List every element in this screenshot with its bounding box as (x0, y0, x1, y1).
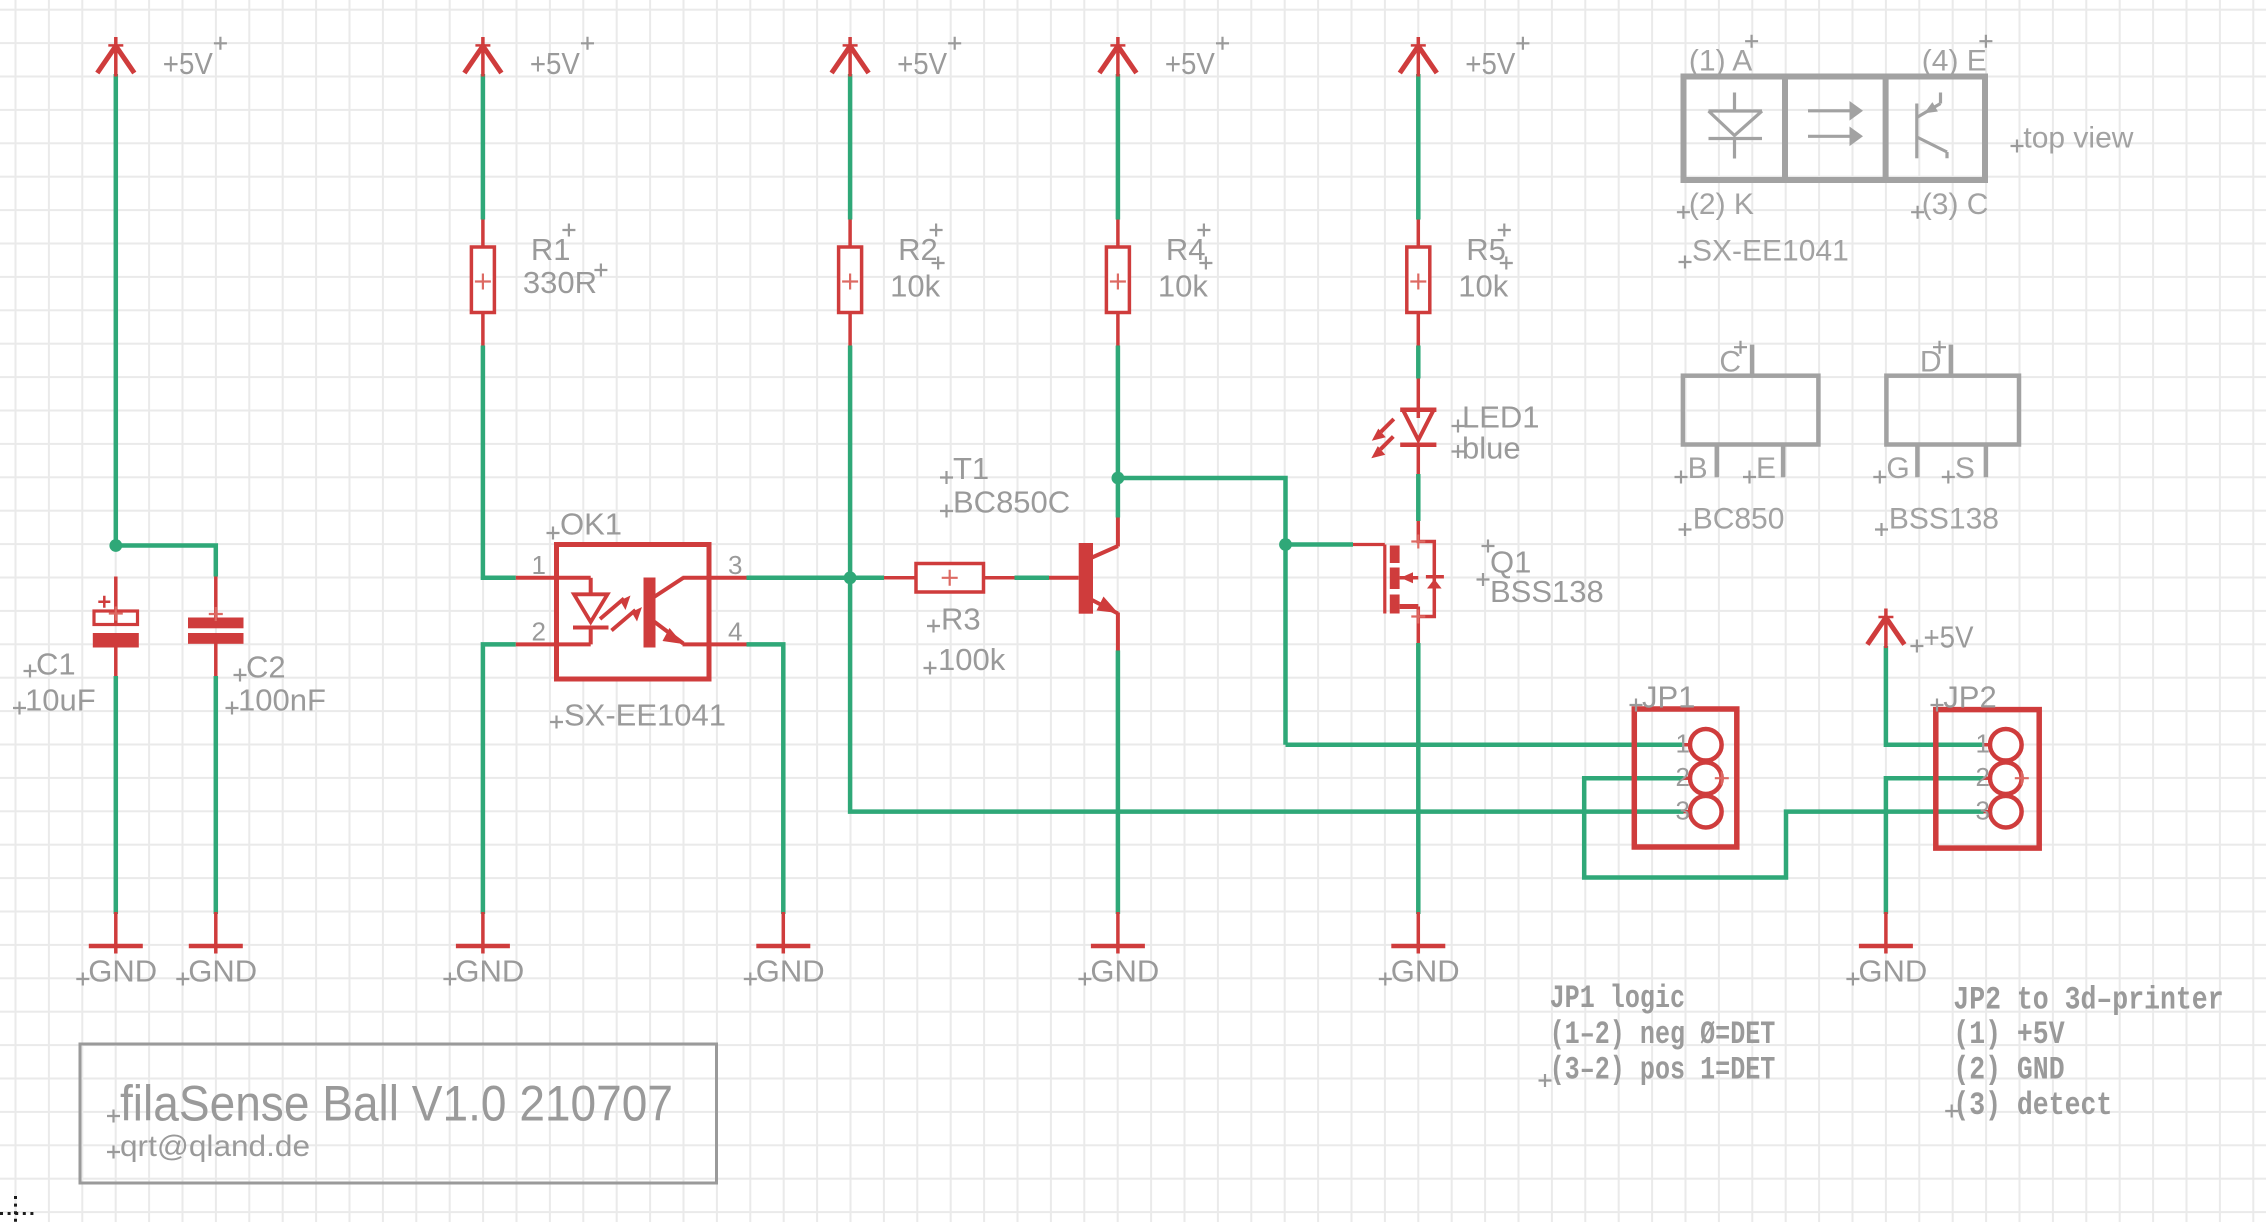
svg-text:qrt@qland.de: qrt@qland.de (120, 1130, 310, 1163)
wire +5V to R2 (848, 74, 853, 220)
svg-text:3: 3 (728, 550, 742, 580)
capacitor C2 100nF (214, 577, 218, 677)
svg-text:B: B (1688, 452, 1708, 485)
svg-text:330R: 330R (523, 265, 597, 300)
GND symbol at x=1117.9 (1091, 912, 1145, 954)
svg-text:(1–2) neg Ø=DET: (1–2) neg Ø=DET (1550, 1016, 1776, 1053)
svg-text:GND: GND (1090, 953, 1159, 988)
svg-text:E: E (1756, 452, 1776, 485)
svg-text:BSS138: BSS138 (1889, 503, 1999, 536)
svg-text:2: 2 (1976, 762, 1990, 792)
GND symbol at x=115.8 (89, 912, 143, 954)
svg-text:filaSense Ball V1.0 210707: filaSense Ball V1.0 210707 (120, 1076, 673, 1132)
svg-text:(1) A: (1) A (1689, 44, 1752, 77)
svg-text:(3) C: (3) C (1922, 188, 1989, 221)
wire C2 to GND (214, 676, 219, 914)
wire R2 down to junction (848, 346, 853, 578)
svg-text:100k: 100k (938, 642, 1006, 677)
svg-text:SX-EE1041: SX-EE1041 (564, 698, 726, 733)
svg-text:T1: T1 (953, 451, 989, 486)
title block frame (80, 1044, 717, 1183)
svg-text:R5: R5 (1466, 232, 1506, 267)
svg-text:C2: C2 (246, 650, 286, 685)
svg-text:+5V: +5V (1924, 620, 1974, 655)
svg-text:1: 1 (1676, 729, 1690, 759)
wire gate branch to Q1 gate (1286, 542, 1354, 547)
transistor T1 BC850C (1049, 518, 1118, 651)
wire +5V to R1 (481, 74, 486, 220)
wire to JP1 pin 1 (1286, 743, 1684, 748)
svg-text:G: G (1886, 452, 1909, 485)
+5V power symbol at JP2 (1867, 609, 1904, 649)
svg-text:+5V: +5V (1165, 46, 1215, 81)
svg-text:R2: R2 (898, 232, 938, 267)
svg-text:(3) detect: (3) detect (1953, 1087, 2112, 1124)
JP2 pin 2 circle (1984, 776, 1992, 780)
wire R1 to OK1 pin 1 (483, 346, 516, 578)
svg-text:2: 2 (532, 617, 546, 647)
wire R5 to LED1 (1416, 346, 1421, 379)
svg-text:JP1 logic: JP1 logic (1550, 980, 1685, 1017)
+5V power symbol at x=1418.3 (1400, 37, 1437, 77)
svg-text:GND: GND (455, 953, 524, 988)
wire JP2 pin 2 to GND (1886, 778, 1984, 914)
+5V power symbol at x=850.1 (832, 37, 869, 77)
JP2 pin 3 circle (1984, 810, 1992, 814)
svg-text:GND: GND (1391, 953, 1460, 988)
svg-text:LED1: LED1 (1462, 400, 1540, 435)
svg-text:+5V: +5V (1465, 46, 1515, 81)
wire C1 to GND (114, 676, 119, 914)
junction R4/T1 collector (1112, 472, 1125, 485)
svg-text:10uF: 10uF (25, 683, 96, 718)
svg-text:BC850: BC850 (1693, 503, 1785, 536)
resistor R2 10k (839, 220, 862, 346)
package drawing SX-EE1041 top view (1684, 77, 1986, 181)
GND symbol at x=1885.9 (1859, 912, 1913, 954)
GND symbol at x=1418.3 (1391, 912, 1445, 954)
svg-text:R1: R1 (531, 232, 571, 267)
svg-text:10k: 10k (890, 269, 940, 304)
wire Q1 source to GND (1416, 643, 1421, 914)
wire OK1 pin 2 to GND (483, 644, 516, 914)
wire T1 emitter to GND (1116, 651, 1121, 915)
+5V power symbol at x=115.8 (97, 37, 134, 77)
svg-text:JP2 to 3d–printer: JP2 to 3d–printer (1953, 982, 2223, 1019)
resistor R3 100k (884, 564, 1015, 593)
+5V power symbol at x=482.9 (464, 37, 501, 77)
svg-text:(1) +5V: (1) +5V (1953, 1016, 2065, 1053)
resistor R1 330R (471, 220, 494, 346)
resistor R5 10k (1407, 220, 1430, 346)
GND symbol at x=215.8 (189, 912, 243, 954)
wire OK1 pin 4 to GND (747, 644, 784, 914)
svg-text:D: D (1920, 346, 1942, 379)
GND symbol at x=482.9 (456, 912, 510, 954)
svg-text:+5V: +5V (897, 46, 947, 81)
svg-text:R3: R3 (941, 602, 981, 637)
wire OK1 pin 3 to R3 and R2 node (747, 576, 885, 581)
svg-text:3: 3 (1976, 796, 1990, 826)
wire JP1 pin 2 to JP2 pin 3 (1584, 778, 1983, 877)
+5V power symbol at x=1117.9 (1099, 37, 1136, 77)
junction C1/C2 +5V (109, 539, 122, 552)
svg-text:GND: GND (756, 953, 825, 988)
GND symbol at x=783.3 (756, 912, 810, 954)
svg-text:(4) E: (4) E (1922, 44, 1987, 77)
svg-text:10k: 10k (1458, 269, 1508, 304)
svg-text:top view: top view (2023, 122, 2133, 155)
wire LED1 to Q1 drain (1416, 474, 1421, 521)
wire +5V to R5 (1416, 74, 1421, 220)
wire +5V to C1 and C2 (114, 74, 119, 546)
svg-text:BC850C: BC850C (953, 485, 1070, 520)
svg-text:SX-EE1041: SX-EE1041 (1692, 235, 1849, 268)
svg-text:JP2: JP2 (1943, 680, 1996, 715)
svg-text:100nF: 100nF (238, 683, 326, 718)
svg-text:4: 4 (728, 617, 742, 647)
junction Q1 gate branch (1279, 538, 1292, 551)
sheet origin dotted cross (0, 1212, 35, 1215)
svg-text:C1: C1 (36, 647, 76, 682)
JP2 pin 1 circle (1984, 743, 1992, 747)
svg-text:3: 3 (1676, 796, 1690, 826)
svg-text:2: 2 (1676, 762, 1690, 792)
connector JP1 pin header (1634, 709, 1737, 847)
wire +5V to R4 (1116, 74, 1121, 220)
JP1 pin 3 circle (1684, 810, 1692, 814)
capacitor C1 10uF (polarized) (94, 577, 138, 677)
svg-text:10k: 10k (1158, 269, 1208, 304)
LED LED1 blue (1381, 379, 1437, 475)
svg-text:1: 1 (1976, 729, 1990, 759)
svg-text:+5V: +5V (530, 46, 580, 81)
wire R3 to T1 base (1015, 576, 1050, 581)
optocoupler OK1 SX-EE1041 (516, 545, 747, 680)
svg-text:GND: GND (88, 953, 157, 988)
wire +5V to JP2 pin 1 (1886, 646, 1984, 745)
package drawing BC850 SOT23 (1683, 345, 1819, 478)
svg-text:JP1: JP1 (1642, 680, 1695, 715)
svg-text:GND: GND (1858, 953, 1927, 988)
connector JP2 pin header (1936, 710, 2039, 849)
svg-text:(2) K: (2) K (1689, 188, 1754, 221)
svg-text:BSS138: BSS138 (1490, 574, 1604, 609)
svg-text:1: 1 (532, 550, 546, 580)
svg-text:(3–2) pos 1=DET: (3–2) pos 1=DET (1550, 1052, 1776, 1089)
wire R2 node down and right to JP1 pin 3 (850, 578, 1683, 812)
svg-text:(2) GND: (2) GND (1953, 1052, 2064, 1089)
svg-text:blue: blue (1462, 431, 1521, 466)
wire collector node to Q1 gate branch (1118, 478, 1286, 745)
svg-text:GND: GND (188, 953, 257, 988)
svg-text:+5V: +5V (163, 46, 213, 81)
svg-text:S: S (1955, 452, 1975, 485)
wire R4 to T1 collector node (1116, 346, 1121, 518)
JP1 pin 1 circle (1684, 743, 1692, 747)
svg-text:C: C (1719, 346, 1741, 379)
transistor Q1 BSS138 (n-MOSFET) (1353, 521, 1444, 643)
resistor R4 10k (1106, 220, 1129, 346)
package drawing BSS138 SOT23 (1886, 345, 2019, 478)
svg-text:OK1: OK1 (560, 507, 622, 542)
junction R2/OK1/R3 (844, 571, 857, 584)
svg-text:R4: R4 (1166, 232, 1206, 267)
JP1 pin 2 circle (1684, 776, 1692, 780)
